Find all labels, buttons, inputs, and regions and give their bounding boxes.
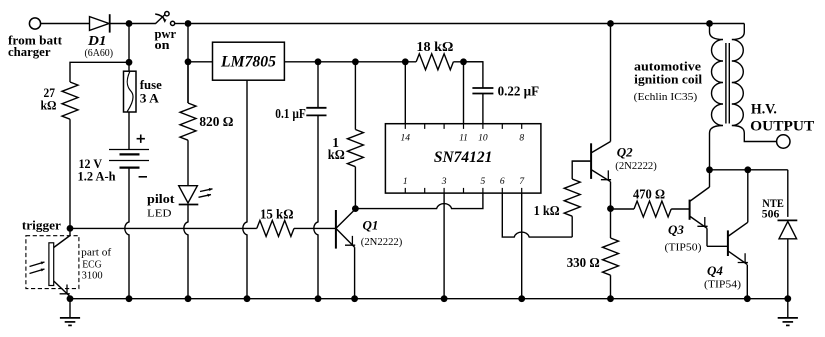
svg-text:OUTPUT: OUTPUT: [750, 119, 814, 135]
node pin3/bottom rail: [441, 295, 448, 302]
wire node->switch: [129, 23, 156, 25]
svg-text:kΩ: kΩ: [328, 147, 345, 162]
wire LM7805 ground: [243, 80, 247, 299]
node Q1 emitter/bottom rail: [351, 295, 358, 302]
svg-text:LM7805: LM7805: [220, 53, 276, 70]
svg-text:1.2 A-h: 1.2 A-h: [78, 169, 117, 184]
node left ground: [67, 295, 74, 302]
switch S1 pwr-on: [155, 12, 185, 53]
svg-text:kΩ: kΩ: [41, 98, 57, 113]
svg-text:10: 10: [478, 134, 488, 144]
svg-text:ECG: ECG: [82, 259, 102, 270]
svg-text:5: 5: [481, 177, 486, 187]
wire pin6 to 1k: [502, 193, 572, 237]
svg-text:(2N2222): (2N2222): [615, 161, 657, 172]
svg-text:3100: 3100: [82, 271, 103, 282]
node pin14 rail: [402, 58, 409, 65]
wire input->D1: [41, 23, 90, 25]
regulator U2 LM7805: [213, 42, 285, 80]
node Q4 collector: [744, 166, 751, 173]
svg-text:Q3: Q3: [668, 222, 684, 237]
transistor Q4 (TIP54): [704, 170, 748, 299]
wire Q1-collector to pin5: [355, 193, 483, 209]
svg-text:506: 506: [762, 207, 780, 221]
svg-text:8: 8: [519, 134, 524, 144]
node D1/fuse junction: [126, 20, 133, 27]
capacitor 0.1uF: [275, 62, 326, 299]
node 7805gnd/bottom rail: [244, 295, 251, 302]
svg-text:6: 6: [500, 177, 505, 187]
wire coil/collector rail: [710, 170, 788, 217]
wire pin3: [443, 193, 445, 299]
svg-text:1 kΩ: 1 kΩ: [534, 203, 560, 218]
node Q4 emitter/bottom rail: [744, 295, 751, 302]
svg-text:LED: LED: [147, 209, 172, 220]
ground (left): [60, 299, 80, 326]
transistor Q3 (TIP50): [665, 170, 728, 254]
terminal H.V. OUTPUT: [750, 102, 814, 149]
node 0.1uF top: [315, 58, 322, 65]
node Q2 emitter/470/330: [607, 205, 614, 212]
LED pilot: [147, 186, 213, 299]
node 0.1uF/bottom rail: [315, 295, 322, 302]
svg-text:part of: part of: [81, 247, 112, 258]
svg-text:D1: D1: [87, 33, 107, 48]
wire into LM7805: [188, 61, 213, 63]
svg-text:15 kΩ: 15 kΩ: [260, 206, 294, 221]
svg-text:0.22 µF: 0.22 µF: [498, 84, 539, 99]
svg-text:(6A60): (6A60): [85, 48, 114, 59]
node trigger/27k: [22, 218, 74, 233]
fuse F1 3A: [124, 71, 163, 112]
node LM7805 input: [185, 58, 192, 65]
node top-rail/LM7805-input: [185, 20, 192, 27]
svg-text:3: 3: [441, 177, 447, 187]
wire top rail: [188, 23, 744, 25]
svg-text:0.1 µF: 0.1 µF: [275, 106, 306, 121]
svg-text:470 Ω: 470 Ω: [633, 186, 665, 201]
svg-text:(2N2222): (2N2222): [361, 237, 403, 248]
resistor 330: [567, 209, 619, 299]
transistor Q2 (2N2222): [572, 24, 657, 209]
svg-text:on: on: [155, 37, 171, 52]
svg-text:1: 1: [403, 177, 408, 187]
node Q2 collector/top rail: [607, 20, 614, 27]
svg-text:14: 14: [401, 134, 411, 144]
diode D1 (6A60): [85, 14, 130, 59]
svg-text:charger: charger: [8, 44, 51, 59]
node NTE/bottom rail: [784, 295, 791, 302]
battery BT1 12V 1.2A-h: [78, 112, 150, 299]
svg-text:SN74121: SN74121: [434, 149, 493, 166]
node 1k top: [352, 58, 359, 65]
svg-text:Q4: Q4: [707, 263, 723, 278]
wire 5V rail: [284, 61, 483, 63]
node 330/bottom rail: [607, 295, 614, 302]
wire bottom rail: [70, 298, 788, 300]
svg-text:trigger: trigger: [22, 218, 61, 233]
node 18k/pin11: [460, 58, 467, 65]
capacitor 0.22uF: [472, 84, 539, 124]
node battery/bottom rail: [126, 295, 133, 302]
svg-text:(TIP54): (TIP54): [704, 280, 741, 291]
svg-text:18 kΩ: 18 kΩ: [416, 39, 453, 54]
svg-text:ignition coil: ignition coil: [634, 72, 702, 87]
resistor 18k: [416, 39, 453, 70]
wire pin11: [463, 62, 465, 124]
svg-text:330 Ω: 330 Ω: [567, 255, 600, 270]
wire pin7: [521, 193, 523, 299]
svg-text:11: 11: [459, 134, 468, 144]
resistor 15k: [257, 206, 294, 236]
node LED/bottom rail: [185, 295, 192, 302]
phototransistor PT1 trigger: [26, 228, 112, 298]
svg-text:(Echlin IC35): (Echlin IC35): [634, 92, 698, 103]
node coil/top rail: [706, 20, 713, 27]
resistor 820: [180, 62, 234, 186]
svg-text:(TIP50): (TIP50): [665, 243, 702, 254]
resistor 27k: [41, 62, 130, 228]
node Q1 collector/1k: [352, 205, 359, 212]
transformer T1 automotive ignition coil: [634, 24, 777, 170]
wire LM7805 input column: [187, 24, 189, 104]
wire to 0.22uF: [464, 62, 483, 88]
node pin7/bottom rail: [518, 295, 525, 302]
resistor 1k (Q1): [328, 62, 364, 209]
terminal: from batt charger input: [8, 18, 63, 59]
wire pin14: [404, 62, 406, 124]
resistor 1k (Q2 base): [534, 161, 592, 237]
svg-text:Q1: Q1: [363, 218, 379, 233]
resistor 470: [611, 186, 690, 217]
node coil-primary/Q3: [706, 166, 713, 173]
wire trigger base line: [70, 227, 336, 229]
IC U1 SN74121: [385, 124, 541, 193]
wire to fuse: [128, 24, 130, 72]
svg-text:Q2: Q2: [617, 145, 633, 160]
svg-text:H.V.: H.V.: [751, 102, 777, 118]
node fuse/27k junction: [126, 59, 133, 66]
transistor Q1 (2N2222): [336, 209, 402, 299]
svg-text:pilot: pilot: [147, 191, 175, 206]
svg-text:3 A: 3 A: [140, 91, 160, 106]
ground (right): [778, 299, 798, 326]
svg-text:820 Ω: 820 Ω: [199, 114, 233, 129]
diode NTE506: [762, 196, 798, 299]
